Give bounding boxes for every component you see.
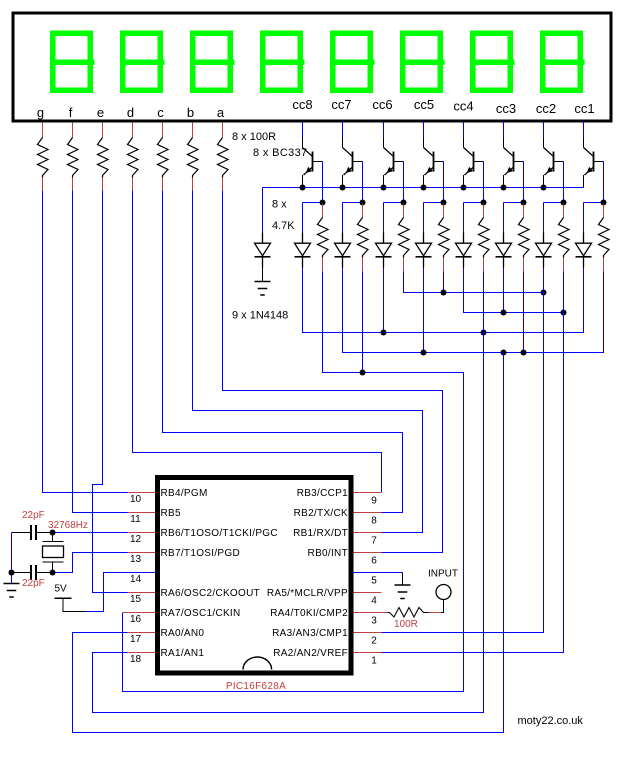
- svg-text:RB4/PGM: RB4/PGM: [161, 488, 208, 499]
- display pin f stub: [72, 123, 74, 138]
- wire segment c to pin 8: [163, 191, 403, 513]
- display pin cc5 wire: [423, 123, 425, 138]
- junction: [50, 570, 56, 576]
- capacitor C2 22pF: [12, 565, 53, 580]
- resistor 4.7K ch5: [479, 218, 490, 258]
- junction: [340, 185, 346, 191]
- wire base junction ch8: [584, 202, 604, 204]
- junction: [501, 310, 507, 316]
- junction: [360, 370, 366, 376]
- wire base junction ch3: [384, 202, 404, 204]
- transistor Q5 (BC337): [464, 138, 484, 188]
- wire to diode D6: [503, 203, 505, 233]
- svg-text:17: 17: [130, 634, 142, 645]
- resistor 4.7K ch3: [399, 218, 410, 258]
- resistor 100R (input): [388, 608, 429, 618]
- resistor 100R (segment e): [98, 138, 109, 178]
- junction: [381, 330, 387, 336]
- svg-text:3: 3: [371, 616, 377, 627]
- resistor 4.7K ch7 top lead: [563, 204, 565, 218]
- display pin cc2 wire: [543, 123, 545, 138]
- wire R5 down to pin 18 route: [93, 272, 484, 713]
- svg-text:10: 10: [130, 494, 142, 505]
- svg-text:1: 1: [371, 656, 377, 667]
- svg-text:100R: 100R: [394, 619, 418, 630]
- wire base Q1: [322, 162, 324, 203]
- junction: [50, 530, 56, 536]
- svg-text:8: 8: [371, 516, 377, 527]
- wire base Q2: [362, 162, 364, 203]
- capacitor C1 22pF: [12, 525, 53, 540]
- svg-text:INPUT: INPUT: [428, 569, 458, 580]
- pin 12 stub: [128, 532, 156, 534]
- svg-text:8 x BC337: 8 x BC337: [253, 147, 308, 159]
- svg-text:RA7/OSC1/CKIN: RA7/OSC1/CKIN: [161, 608, 241, 619]
- svg-text:5V: 5V: [55, 584, 68, 595]
- wire net-C (D1,D3,R5,D8 to pin 18): [303, 268, 584, 333]
- wire base junction ch7: [544, 202, 564, 204]
- pin 9 stub: [354, 492, 382, 494]
- svg-text:5: 5: [371, 576, 377, 587]
- svg-text:c: c: [157, 105, 164, 120]
- svg-text:4: 4: [371, 596, 377, 607]
- junction: [441, 200, 447, 206]
- wire R2 down: [362, 272, 364, 373]
- ground (pin 5): [395, 585, 411, 599]
- svg-text:18: 18: [130, 654, 142, 665]
- wire D7 down to pin 2: [382, 268, 544, 633]
- svg-text:e: e: [97, 105, 104, 120]
- svg-text:9: 9: [371, 496, 377, 507]
- junction: [481, 200, 487, 206]
- wire segment a to pin 6: [223, 191, 443, 553]
- svg-text:RA5/*MCLR/VPP: RA5/*MCLR/VPP: [267, 588, 348, 599]
- svg-text:9 x 1N4148: 9 x 1N4148: [232, 310, 288, 322]
- svg-text:cc2: cc2: [536, 101, 556, 116]
- 7-segment digit 5: [330, 31, 375, 94]
- emitter bus wire: [263, 187, 584, 189]
- wire R6 down: [523, 272, 525, 353]
- wire base Q3: [403, 162, 405, 203]
- svg-text:RA2/AN2/VREF: RA2/AN2/VREF: [273, 648, 348, 659]
- wire to diode D3: [383, 203, 385, 233]
- transistor Q8 (BC337): [584, 138, 604, 188]
- 7-segment digit 2: [120, 31, 165, 94]
- pin 4 stub: [354, 592, 382, 594]
- svg-text:11: 11: [130, 514, 141, 525]
- resistor 4.7K ch6: [519, 218, 530, 258]
- svg-text:15: 15: [130, 594, 142, 605]
- transistor Q2 (BC337): [343, 138, 363, 188]
- svg-text:moty22.co.uk: moty22.co.uk: [518, 715, 584, 727]
- svg-text:cc3: cc3: [496, 101, 516, 116]
- svg-text:32768Hz: 32768Hz: [48, 520, 88, 531]
- 5V supply terminal: [55, 598, 86, 612]
- junction: [421, 185, 427, 191]
- svg-text:16: 16: [130, 614, 142, 625]
- pin 2 stub: [354, 632, 382, 634]
- wire segment f to pin 11: [73, 191, 128, 513]
- svg-text:cc1: cc1: [574, 101, 594, 116]
- svg-text:22pF: 22pF: [22, 510, 45, 521]
- wire segment e to pin 15: [93, 191, 128, 593]
- wire net-B (D5,D6,R7 to pin 1): [464, 268, 564, 313]
- wire segment g to pin 10: [43, 191, 128, 493]
- wire to diode D4: [423, 203, 425, 233]
- INPUT jack: [436, 585, 451, 613]
- junction: [360, 200, 366, 206]
- svg-text:RA6/OSC2/CKOOUT: RA6/OSC2/CKOOUT: [161, 588, 261, 599]
- junction: [300, 185, 306, 191]
- junction: [601, 200, 607, 206]
- display pin d stub: [132, 123, 134, 138]
- wire bus to D9: [262, 188, 264, 233]
- junction: [481, 330, 487, 336]
- svg-text:RB6/T1OSO/T1CKI/PGC: RB6/T1OSO/T1CKI/PGC: [161, 528, 278, 539]
- junction: [9, 570, 15, 576]
- junction: [561, 310, 567, 316]
- svg-text:RB1/RX/DT: RB1/RX/DT: [293, 528, 348, 539]
- ground (crystal): [4, 584, 20, 598]
- resistor 4.7K ch3 top lead: [403, 204, 405, 218]
- wire segment b to pin 7: [193, 191, 423, 533]
- svg-text:cc4: cc4: [453, 99, 473, 114]
- pin 8 stub: [354, 512, 382, 514]
- display pin b stub: [192, 123, 194, 138]
- diode D8 (1N4148): [576, 233, 592, 268]
- IC U1 PIC16F628A outline: [158, 478, 352, 674]
- 7-segment digit 8: [540, 31, 585, 94]
- svg-text:PIC16F628A: PIC16F628A: [226, 681, 286, 692]
- transistor Q3 (BC337): [384, 138, 404, 188]
- diode D7 (1N4148): [536, 233, 552, 268]
- wire to diode D5: [463, 203, 465, 233]
- junction: [521, 350, 527, 356]
- display pin a stub: [222, 123, 224, 138]
- pin 13 stub: [128, 552, 156, 554]
- junction: [381, 185, 387, 191]
- 7-segment digit 7: [470, 31, 515, 94]
- transistor Q7 (BC337): [544, 138, 564, 188]
- svg-text:7: 7: [371, 536, 377, 547]
- junction: [501, 185, 507, 191]
- junction: [541, 185, 547, 191]
- wire base Q5: [483, 162, 485, 203]
- wire net-D (D2,D4,D6,R6,R8 to pin 17): [343, 268, 604, 353]
- IC notch: [243, 657, 272, 670]
- transistor Q1 (BC337): [303, 138, 323, 188]
- wire net R1-R2 (to pin 16 route): [123, 272, 464, 692]
- wire net-D down to pin 17 route: [73, 353, 504, 733]
- resistor 4.7K ch2 top lead: [362, 204, 364, 218]
- resistor 4.7K ch1 top lead: [322, 204, 324, 218]
- diode D9 (1N4148): [255, 233, 271, 268]
- display pin cc6 wire: [383, 123, 385, 138]
- svg-text:f: f: [69, 105, 73, 120]
- resistor 100R (segment b): [188, 138, 199, 178]
- wire base junction ch5: [464, 202, 484, 204]
- junction: [441, 290, 447, 296]
- pin 18 stub: [128, 652, 156, 654]
- svg-text:22pF: 22pF: [22, 578, 45, 589]
- 7-segment digit 1: [50, 31, 95, 94]
- svg-text:cc8: cc8: [292, 97, 312, 112]
- pin 10 stub: [128, 492, 156, 494]
- wire D3 down: [383, 268, 385, 333]
- wire base Q6: [523, 162, 525, 203]
- pin 7 stub: [354, 532, 382, 534]
- display pin c stub: [162, 123, 164, 138]
- svg-text:b: b: [187, 105, 194, 120]
- wire base junction ch4: [424, 202, 444, 204]
- wire base Q7: [563, 162, 565, 203]
- wire to diode D2: [342, 203, 344, 233]
- junction: [501, 350, 507, 356]
- display module (8-digit 7-segment) outline: [13, 13, 611, 121]
- svg-text:RB2/TX/CK: RB2/TX/CK: [294, 508, 348, 519]
- wire pin 5 to ground: [354, 572, 403, 574]
- 7-segment digit 3: [190, 31, 235, 94]
- wire segment d to pin 9: [133, 191, 382, 493]
- svg-text:2: 2: [371, 636, 377, 647]
- junction: [421, 350, 427, 356]
- 7-segment digit 4: [260, 31, 305, 94]
- svg-text:RA1/AN1: RA1/AN1: [161, 648, 205, 659]
- svg-text:cc6: cc6: [372, 97, 392, 112]
- resistor 4.7K ch7: [559, 218, 570, 258]
- transistor Q4 (BC337): [424, 138, 444, 188]
- wire pin 12 to crystal: [53, 532, 128, 534]
- display pin e stub: [102, 123, 104, 138]
- wire base junction ch1: [303, 202, 323, 204]
- svg-text:RB5: RB5: [161, 508, 181, 519]
- transistor Q6 (BC337): [504, 138, 524, 188]
- pin 3 stub: [354, 612, 388, 614]
- display pin g stub: [42, 123, 44, 138]
- resistor 100R (segment g): [38, 138, 49, 178]
- junction: [320, 200, 326, 206]
- resistor 4.7K ch4: [439, 218, 450, 258]
- svg-text:RA3/AN3/CMP1: RA3/AN3/CMP1: [272, 628, 348, 639]
- junction: [541, 290, 547, 296]
- resistor 100R (segment f): [68, 138, 79, 178]
- pin 17 stub: [128, 632, 156, 634]
- ground (emitter diode): [255, 282, 271, 296]
- svg-text:13: 13: [130, 554, 142, 565]
- resistor 4.7K ch6 top lead: [523, 204, 525, 218]
- wire base junction ch6: [504, 202, 524, 204]
- svg-text:4.7K: 4.7K: [272, 220, 295, 232]
- svg-text:8 x 100R: 8 x 100R: [232, 131, 276, 143]
- display pin cc7 wire: [342, 123, 344, 138]
- wire R7 down to pin 1: [382, 272, 564, 653]
- svg-text:RB7/T1OSI/PGD: RB7/T1OSI/PGD: [161, 548, 240, 559]
- resistor 100R (segment d): [128, 138, 139, 178]
- wire net-A (R3,R4,D7 to pin 2): [404, 272, 544, 293]
- wire caps left rail: [11, 533, 13, 584]
- input resistor right lead: [429, 612, 442, 614]
- diode D6 (1N4148): [496, 233, 512, 268]
- display pin cc4 wire: [463, 123, 465, 138]
- pin 15 stub: [128, 592, 156, 594]
- svg-text:cc5: cc5: [414, 97, 434, 112]
- resistor 4.7K ch2: [358, 218, 369, 258]
- resistor 4.7K ch4 top lead: [443, 204, 445, 218]
- resistor 100R (segment c): [158, 138, 169, 178]
- junction: [561, 200, 567, 206]
- junction: [461, 185, 467, 191]
- wire base junction ch2: [343, 202, 363, 204]
- wire D4 down: [423, 268, 425, 353]
- svg-text:RA4/T0KI/CMP2: RA4/T0KI/CMP2: [270, 608, 348, 619]
- junction: [521, 200, 527, 206]
- 7-segment digit 6: [400, 31, 445, 94]
- diode D1 (1N4148): [295, 233, 311, 268]
- pin 1 stub: [354, 652, 382, 654]
- svg-text:d: d: [127, 105, 134, 120]
- diode D5 (1N4148): [456, 233, 472, 268]
- junction: [401, 200, 407, 206]
- resistor 100R (segment a): [218, 138, 229, 178]
- wire R4 down: [443, 272, 445, 293]
- diode D3 (1N4148): [376, 233, 392, 268]
- svg-text:14: 14: [130, 574, 142, 585]
- wire base Q8: [603, 162, 605, 203]
- pin 6 stub: [354, 552, 382, 554]
- svg-text:cc7: cc7: [331, 97, 351, 112]
- svg-text:RB0/INT: RB0/INT: [308, 548, 348, 559]
- resistor 4.7K ch5 top lead: [483, 204, 485, 218]
- svg-text:a: a: [217, 105, 225, 120]
- resistor 4.7K ch8 top lead: [603, 204, 605, 218]
- svg-text:RA0/AN0: RA0/AN0: [161, 628, 205, 639]
- wire to diode D1: [302, 203, 304, 233]
- wire to diode D7: [543, 203, 545, 233]
- wire to diode D8: [583, 203, 585, 233]
- svg-text:RB3/CCP1: RB3/CCP1: [297, 488, 348, 499]
- wire pin 14 to 5V: [85, 573, 155, 612]
- crystal X1 32768Hz: [43, 533, 64, 573]
- pin 16 stub: [123, 612, 156, 614]
- resistor 4.7K ch8: [599, 218, 610, 258]
- svg-text:12: 12: [130, 534, 142, 545]
- wire D6 down: [503, 268, 505, 313]
- svg-text:6: 6: [371, 556, 377, 567]
- pin 11 stub: [128, 512, 156, 514]
- wire pin 13 to crystal: [53, 553, 128, 573]
- display pin cc8 wire: [302, 123, 304, 138]
- svg-text:g: g: [37, 105, 44, 120]
- svg-text:8 x: 8 x: [272, 199, 287, 211]
- wire base Q4: [443, 162, 445, 203]
- diode D2 (1N4148): [335, 233, 351, 268]
- display pin cc3 wire: [503, 123, 505, 138]
- display pin cc1 wire: [583, 123, 585, 138]
- diode D4 (1N4148): [416, 233, 432, 268]
- resistor 4.7K ch1: [318, 218, 329, 258]
